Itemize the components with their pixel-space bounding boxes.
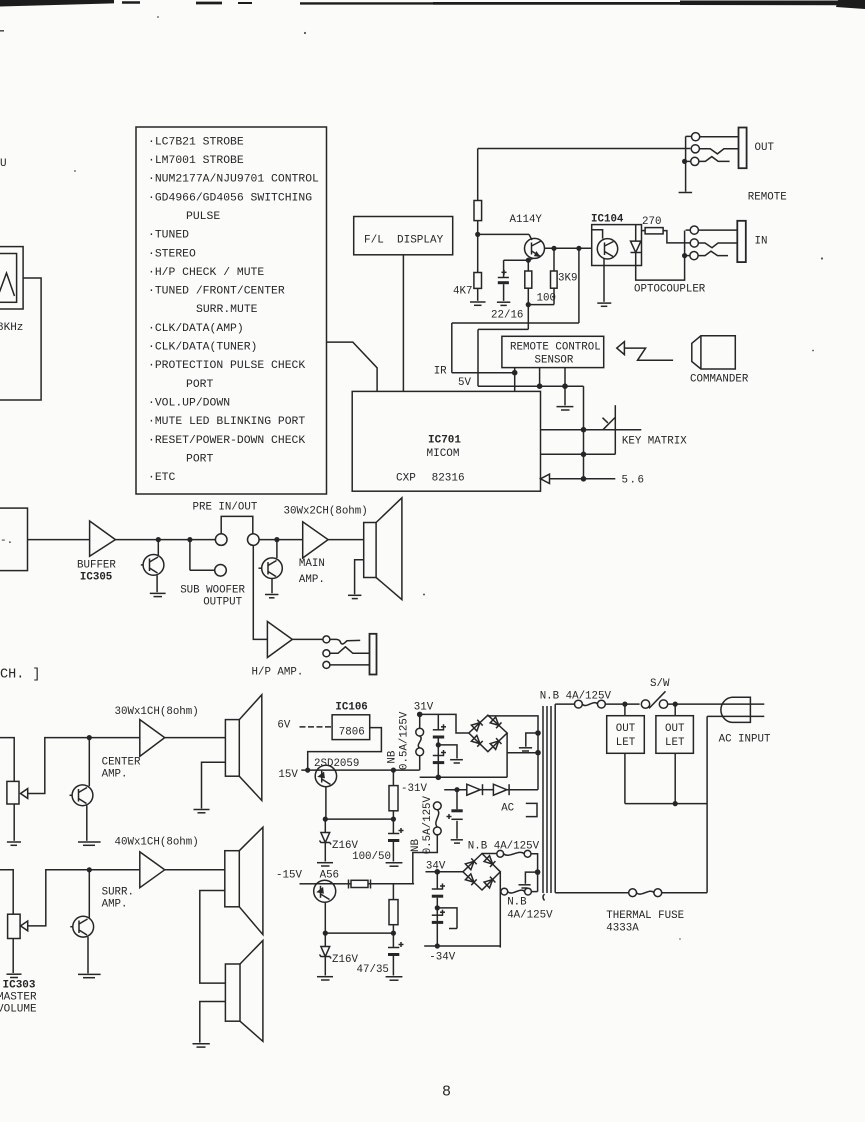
svg-text:-31V: -31V [401, 783, 427, 795]
svg-text:REMOTE CONTROL: REMOTE CONTROL [510, 342, 601, 354]
svg-text:·CLK/DATA(AMP): ·CLK/DATA(AMP) [148, 323, 244, 335]
svg-text:270: 270 [642, 216, 661, 228]
svg-text:CH. ]: CH. ] [0, 668, 41, 683]
svg-text:H/P AMP.: H/P AMP. [252, 667, 304, 679]
svg-text:·GD4966/GD4056 SWITCHING: ·GD4966/GD4056 SWITCHING [148, 192, 312, 204]
svg-text:·RESET/POWER-DOWN CHECK: ·RESET/POWER-DOWN CHECK [148, 435, 305, 447]
svg-text:·TUNED: ·TUNED [148, 230, 189, 242]
svg-text:MICOM: MICOM [427, 448, 460, 460]
svg-text:15V: 15V [278, 769, 298, 781]
svg-text:N.B 4A/125V: N.B 4A/125V [540, 691, 612, 703]
svg-text:KEY MATRIX: KEY MATRIX [622, 435, 687, 447]
svg-text:8KHz: 8KHz [0, 322, 23, 334]
svg-text:5V: 5V [458, 377, 471, 389]
svg-text:22/16: 22/16 [491, 310, 523, 322]
svg-text:·STEREO: ·STEREO [148, 248, 196, 260]
svg-text:·VOL.UP/DOWN: ·VOL.UP/DOWN [148, 398, 230, 410]
svg-text:·H/P CHECK / MUTE: ·H/P CHECK / MUTE [148, 267, 264, 279]
svg-text:0.5A/125V: 0.5A/125V [399, 711, 411, 770]
svg-text:7806: 7806 [339, 726, 365, 738]
svg-text:NB: NB [410, 839, 422, 852]
svg-text:PULSE: PULSE [186, 211, 220, 223]
svg-text:S/W: S/W [650, 678, 670, 690]
svg-text:·NUM2177A/NJU9701 CONTROL: ·NUM2177A/NJU9701 CONTROL [148, 174, 319, 186]
svg-text:VOLUME: VOLUME [0, 1004, 37, 1016]
svg-text:REMOTE: REMOTE [748, 191, 787, 203]
svg-text:CENTER: CENTER [102, 757, 141, 769]
svg-text:-.: -. [0, 535, 13, 547]
svg-text:·TUNED /FRONT/CENTER: ·TUNED /FRONT/CENTER [148, 286, 285, 298]
svg-text:-34V: -34V [429, 952, 455, 964]
svg-text:Z16V: Z16V [332, 954, 358, 966]
svg-text:SURR.: SURR. [102, 886, 134, 898]
svg-text:AC INPUT: AC INPUT [719, 734, 771, 746]
svg-text:IC104: IC104 [591, 214, 624, 226]
svg-text:30Wx2CH(8ohm): 30Wx2CH(8ohm) [284, 506, 368, 518]
svg-text:·MUTE LED BLINKING PORT: ·MUTE LED BLINKING PORT [148, 416, 305, 428]
svg-text:AMP.: AMP. [102, 769, 128, 781]
svg-text:IC303: IC303 [3, 980, 36, 992]
svg-text:8: 8 [442, 1084, 451, 1101]
svg-text:AC: AC [501, 803, 514, 815]
svg-text:·LM7001 STROBE: ·LM7001 STROBE [148, 155, 244, 167]
svg-text:SURR.MUTE: SURR.MUTE [196, 304, 258, 316]
svg-text:N.B: N.B [507, 897, 527, 909]
svg-text:PORT: PORT [186, 453, 214, 465]
svg-text:THERMAL FUSE: THERMAL FUSE [606, 910, 684, 922]
svg-text:4333A: 4333A [606, 923, 639, 935]
svg-text:IC701: IC701 [428, 435, 461, 447]
svg-text:LET: LET [665, 737, 685, 749]
svg-text:LET: LET [616, 737, 636, 749]
svg-text:SENSOR: SENSOR [535, 354, 574, 366]
svg-text:IC106: IC106 [335, 702, 367, 714]
svg-text:AMP.: AMP. [102, 899, 128, 911]
svg-text:4A/125V: 4A/125V [507, 910, 553, 922]
svg-text:COMMANDER: COMMANDER [690, 374, 749, 386]
svg-text:3K9: 3K9 [558, 273, 577, 285]
svg-text:·ETC: ·ETC [148, 472, 176, 484]
svg-text:IC305: IC305 [80, 572, 112, 584]
svg-text:IN: IN [755, 236, 768, 248]
svg-text:100/50: 100/50 [352, 851, 391, 863]
svg-text:MAIN: MAIN [299, 558, 325, 570]
svg-text:PRE IN/OUT: PRE IN/OUT [193, 502, 258, 514]
svg-text:5.6: 5.6 [622, 474, 646, 486]
svg-text:30Wx1CH(8ohm): 30Wx1CH(8ohm) [115, 706, 199, 718]
svg-text:AMP.: AMP. [299, 574, 325, 586]
svg-text:U: U [0, 158, 7, 170]
svg-text:100: 100 [537, 293, 556, 305]
svg-text:OUT: OUT [755, 142, 775, 154]
svg-text:A114Y: A114Y [510, 214, 543, 226]
svg-text:OUT: OUT [616, 723, 636, 735]
svg-text:N.B 4A/125V: N.B 4A/125V [468, 841, 540, 853]
svg-text:OUT: OUT [665, 723, 685, 735]
svg-text:4K7: 4K7 [453, 286, 472, 298]
svg-text:-15V: -15V [276, 870, 302, 882]
svg-text:CXP: CXP [396, 473, 416, 485]
svg-text:40Wx1CH(8ohm): 40Wx1CH(8ohm) [115, 836, 199, 848]
svg-text:6V: 6V [277, 720, 290, 732]
svg-text:2SD2059: 2SD2059 [314, 758, 359, 770]
svg-text:34V: 34V [426, 861, 446, 873]
svg-text:0.5A/125V: 0.5A/125V [422, 795, 434, 854]
svg-text:NB: NB [387, 750, 399, 763]
svg-text:A56: A56 [320, 870, 339, 882]
svg-text:SUB WOOFER: SUB WOOFER [180, 584, 245, 596]
svg-text:F/L DISPLAY: F/L DISPLAY [364, 235, 444, 247]
svg-text:·LC7B21 STROBE: ·LC7B21 STROBE [148, 137, 244, 149]
svg-text:·PROTECTION PULSE CHECK: ·PROTECTION PULSE CHECK [148, 360, 305, 372]
svg-text:BUFFER: BUFFER [77, 559, 116, 571]
svg-text:PORT: PORT [186, 379, 214, 391]
svg-text:OPTOCOUPLER: OPTOCOUPLER [634, 284, 706, 296]
svg-text:IR: IR [434, 366, 447, 378]
svg-text:·CLK/DATA(TUNER): ·CLK/DATA(TUNER) [148, 342, 257, 354]
svg-text:82316: 82316 [432, 473, 465, 485]
svg-text:31V: 31V [414, 702, 434, 714]
svg-text:OUTPUT: OUTPUT [203, 597, 242, 609]
svg-text:47/35: 47/35 [357, 964, 389, 976]
svg-text:MASTER: MASTER [0, 992, 37, 1004]
